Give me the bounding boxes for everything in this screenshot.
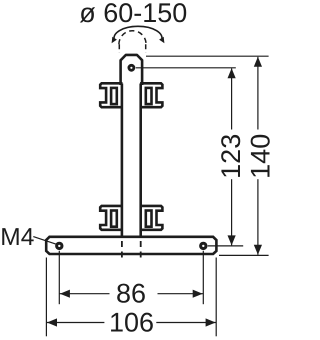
svg-text:86: 86 bbox=[116, 278, 146, 308]
svg-text:ø 60-150: ø 60-150 bbox=[79, 0, 187, 28]
svg-text:106: 106 bbox=[109, 308, 154, 338]
svg-text:123: 123 bbox=[216, 134, 246, 179]
svg-text:M4: M4 bbox=[0, 224, 34, 251]
svg-text:140: 140 bbox=[245, 134, 272, 179]
